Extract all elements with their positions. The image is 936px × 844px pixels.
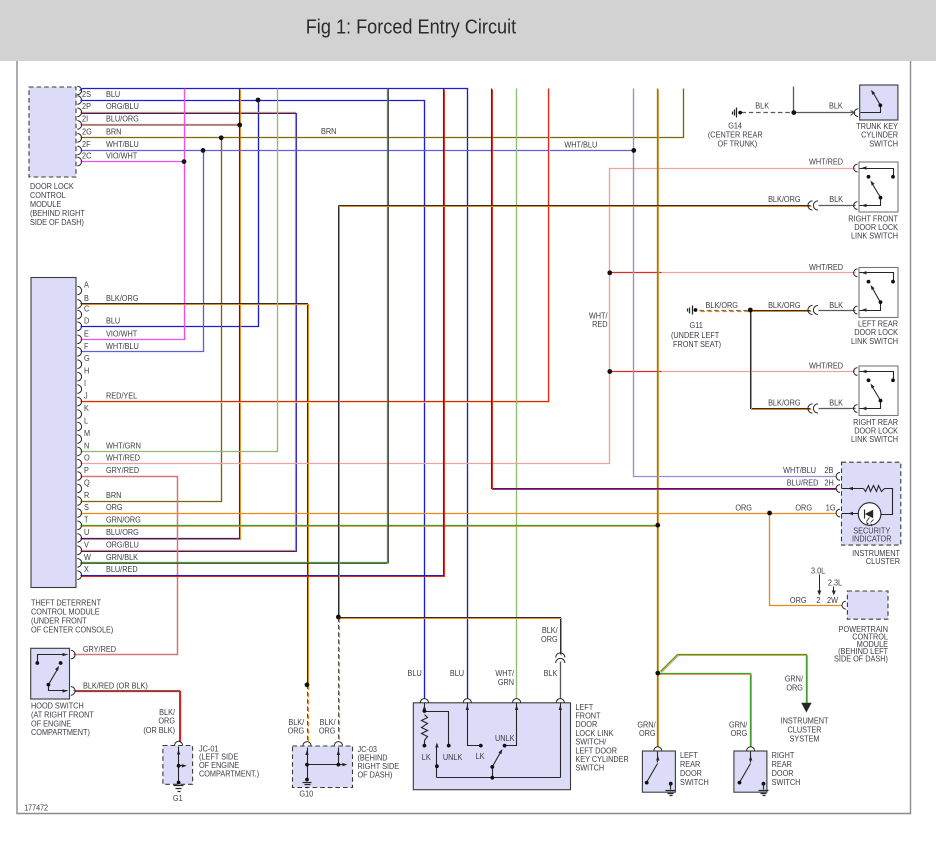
svg-text:BLK: BLK bbox=[829, 300, 843, 310]
svg-text:I: I bbox=[84, 379, 86, 389]
svg-text:G10: G10 bbox=[299, 789, 313, 799]
svg-text:BLK/ORG: BLK/ORG bbox=[768, 300, 800, 310]
svg-text:WHT/RED: WHT/RED bbox=[106, 453, 140, 463]
svg-text:ORG: ORG bbox=[795, 503, 812, 513]
svg-text:B: B bbox=[84, 293, 89, 303]
svg-text:F: F bbox=[84, 341, 89, 351]
svg-text:GRN/BLK: GRN/BLK bbox=[106, 552, 139, 562]
svg-text:BLK/RED (OR BLK): BLK/RED (OR BLK) bbox=[83, 681, 148, 691]
svg-text:LK: LK bbox=[476, 751, 486, 761]
svg-text:V: V bbox=[84, 540, 89, 550]
svg-text:SIDE OF DASH): SIDE OF DASH) bbox=[834, 654, 888, 664]
svg-text:CLUSTER: CLUSTER bbox=[866, 556, 900, 566]
svg-text:X: X bbox=[84, 565, 89, 575]
svg-text:UNLK: UNLK bbox=[443, 752, 463, 762]
svg-text:SWITCH: SWITCH bbox=[680, 777, 709, 787]
svg-text:BLK: BLK bbox=[829, 194, 843, 204]
svg-text:2B: 2B bbox=[824, 466, 833, 476]
svg-text:L: L bbox=[84, 416, 89, 426]
svg-text:GRY/RED: GRY/RED bbox=[106, 465, 139, 475]
svg-text:Fig 1: Forced Entry Circuit: Fig 1: Forced Entry Circuit bbox=[306, 15, 517, 38]
svg-text:BLU: BLU bbox=[106, 89, 120, 99]
svg-text:WHT/RED: WHT/RED bbox=[809, 157, 843, 167]
svg-text:K: K bbox=[84, 404, 89, 414]
svg-text:BRN: BRN bbox=[106, 127, 122, 137]
svg-text:BLK/ORG: BLK/ORG bbox=[106, 293, 138, 303]
svg-text:ORG: ORG bbox=[786, 683, 803, 693]
svg-text:S: S bbox=[84, 502, 89, 512]
svg-text:WHT/GRN: WHT/GRN bbox=[106, 441, 141, 451]
svg-text:SWITCH: SWITCH bbox=[869, 139, 898, 149]
svg-text:N: N bbox=[84, 441, 89, 451]
svg-text:BLU/RED: BLU/RED bbox=[106, 565, 138, 575]
svg-text:2F: 2F bbox=[82, 140, 91, 150]
svg-text:2I: 2I bbox=[82, 114, 88, 124]
svg-text:COMPARTMENT.): COMPARTMENT.) bbox=[199, 769, 259, 779]
svg-text:BLK/ORG: BLK/ORG bbox=[768, 398, 800, 408]
svg-text:COMPARTMENT): COMPARTMENT) bbox=[31, 728, 90, 738]
svg-text:2G: 2G bbox=[82, 127, 92, 137]
svg-text:GRN: GRN bbox=[498, 677, 514, 687]
svg-text:ORG: ORG bbox=[541, 634, 558, 644]
svg-text:ORG: ORG bbox=[731, 728, 748, 738]
svg-text:SYSTEM: SYSTEM bbox=[790, 734, 820, 744]
svg-text:VIO/WHT: VIO/WHT bbox=[106, 151, 137, 161]
svg-text:H: H bbox=[84, 366, 89, 376]
svg-text:OF DASH): OF DASH) bbox=[358, 770, 393, 780]
svg-text:RED: RED bbox=[592, 320, 608, 330]
svg-text:3.0L: 3.0L bbox=[811, 566, 826, 576]
svg-text:LINK SWITCH: LINK SWITCH bbox=[851, 336, 898, 346]
svg-text:ORG/BLU: ORG/BLU bbox=[106, 102, 139, 112]
svg-text:SWITCH: SWITCH bbox=[772, 777, 801, 787]
svg-text:BLK: BLK bbox=[755, 101, 769, 111]
svg-text:W: W bbox=[84, 552, 91, 562]
svg-text:OF CENTER CONSOLE): OF CENTER CONSOLE) bbox=[31, 625, 114, 635]
svg-text:WHT/BLU: WHT/BLU bbox=[106, 341, 139, 351]
svg-text:ORG/BLU: ORG/BLU bbox=[106, 540, 139, 550]
svg-text:BLU/RED: BLU/RED bbox=[787, 478, 819, 488]
svg-text:(OR BLK): (OR BLK) bbox=[143, 725, 175, 735]
svg-text:R: R bbox=[84, 490, 89, 500]
svg-text:U: U bbox=[84, 527, 89, 537]
svg-text:WHT/RED: WHT/RED bbox=[809, 361, 843, 371]
svg-text:LINK SWITCH: LINK SWITCH bbox=[851, 435, 898, 445]
svg-text:M: M bbox=[84, 428, 90, 438]
svg-text:BLK: BLK bbox=[829, 398, 843, 408]
svg-text:FRONT SEAT): FRONT SEAT) bbox=[673, 339, 721, 349]
svg-text:RED/YEL: RED/YEL bbox=[106, 391, 138, 401]
svg-text:2S: 2S bbox=[82, 89, 91, 99]
svg-text:2P: 2P bbox=[82, 102, 91, 112]
svg-text:INDICATOR: INDICATOR bbox=[852, 534, 892, 544]
svg-text:2W: 2W bbox=[827, 595, 838, 605]
svg-text:C: C bbox=[84, 304, 89, 314]
svg-text:177472: 177472 bbox=[24, 803, 48, 813]
svg-text:2.3L: 2.3L bbox=[828, 578, 843, 588]
svg-text:ORG: ORG bbox=[288, 726, 305, 736]
svg-text:E: E bbox=[84, 329, 89, 339]
svg-text:BLU: BLU bbox=[408, 668, 422, 678]
svg-text:2: 2 bbox=[816, 595, 821, 605]
svg-text:P: P bbox=[84, 465, 89, 475]
svg-text:OF TRUNK): OF TRUNK) bbox=[718, 139, 758, 149]
svg-text:VIO/WHT: VIO/WHT bbox=[106, 329, 137, 339]
svg-text:UNLK: UNLK bbox=[495, 733, 515, 743]
svg-text:WHT/BLU: WHT/BLU bbox=[783, 466, 816, 476]
svg-text:Q: Q bbox=[84, 478, 90, 488]
svg-text:O: O bbox=[84, 453, 90, 463]
svg-text:LINK SWITCH: LINK SWITCH bbox=[851, 231, 898, 241]
svg-text:2C: 2C bbox=[82, 151, 92, 161]
svg-text:G: G bbox=[84, 354, 90, 364]
svg-text:D: D bbox=[84, 316, 89, 326]
svg-text:GRN/ORG: GRN/ORG bbox=[106, 515, 141, 525]
svg-text:GRY/RED: GRY/RED bbox=[83, 644, 116, 654]
svg-text:G11: G11 bbox=[690, 320, 704, 330]
svg-text:BLU: BLU bbox=[450, 668, 464, 678]
svg-text:BRN: BRN bbox=[106, 490, 122, 500]
svg-text:ORG: ORG bbox=[106, 502, 123, 512]
svg-text:ORG: ORG bbox=[735, 503, 752, 513]
svg-text:WHT/BLU: WHT/BLU bbox=[564, 140, 597, 150]
svg-text:WHT/BLU: WHT/BLU bbox=[106, 140, 139, 150]
svg-text:BLU/ORG: BLU/ORG bbox=[106, 114, 139, 124]
svg-text:LK: LK bbox=[422, 752, 432, 762]
svg-text:2H: 2H bbox=[824, 478, 834, 488]
svg-text:T: T bbox=[84, 515, 89, 525]
svg-text:ORG: ORG bbox=[639, 728, 656, 738]
svg-text:A: A bbox=[84, 280, 89, 290]
svg-text:ORG: ORG bbox=[790, 595, 807, 605]
svg-text:BLK/ORG: BLK/ORG bbox=[706, 300, 738, 310]
svg-text:BLK: BLK bbox=[544, 668, 558, 678]
svg-text:BLU/ORG: BLU/ORG bbox=[106, 527, 139, 537]
svg-text:SWITCH: SWITCH bbox=[575, 763, 604, 773]
svg-text:BLU: BLU bbox=[106, 316, 120, 326]
svg-text:ORG: ORG bbox=[158, 716, 175, 726]
svg-text:1G: 1G bbox=[826, 503, 836, 513]
svg-text:WHT/RED: WHT/RED bbox=[809, 262, 843, 272]
svg-text:BRN: BRN bbox=[321, 127, 337, 137]
svg-text:ORG: ORG bbox=[319, 726, 336, 736]
svg-text:BLK/ORG: BLK/ORG bbox=[768, 194, 800, 204]
svg-text:BLK: BLK bbox=[829, 101, 843, 111]
svg-text:J: J bbox=[84, 391, 88, 401]
svg-text:SIDE OF DASH): SIDE OF DASH) bbox=[30, 217, 84, 227]
svg-text:G1: G1 bbox=[173, 793, 183, 803]
